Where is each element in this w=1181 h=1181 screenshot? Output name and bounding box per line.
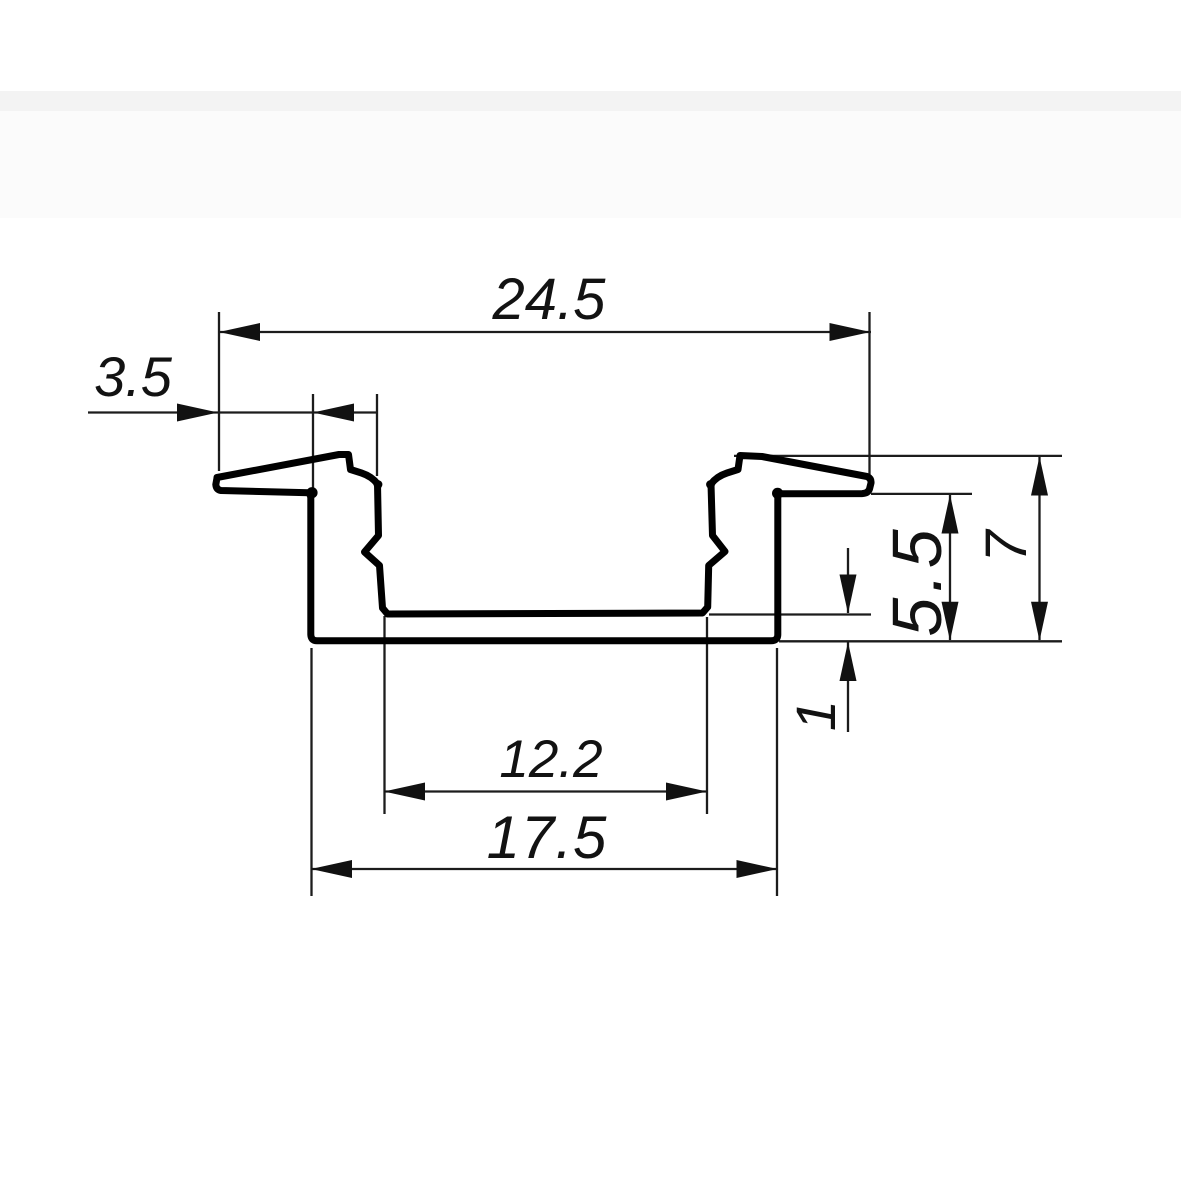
- arrow 1 bottom: [840, 642, 857, 681]
- ext line x313: [312, 394, 314, 488]
- arrow 17.5 left: [311, 860, 352, 878]
- dim line 3.5: [88, 411, 377, 413]
- arrow 1 top: [840, 575, 857, 614]
- ref line bottom: [779, 640, 1062, 642]
- svg-text:24.5: 24.5: [492, 267, 607, 332]
- dim line 17.5: [312, 868, 778, 870]
- hook dot left: [374, 480, 383, 489]
- ext line x377: [376, 394, 378, 476]
- hook dot right: [706, 480, 715, 489]
- arrow 3.5 right: [313, 404, 354, 422]
- svg-text:3.5: 3.5: [94, 345, 173, 408]
- ref line top for 5.5: [871, 493, 972, 495]
- profile outline: [216, 455, 871, 641]
- arrow 3.5 left: [177, 404, 218, 422]
- svg-text:1: 1: [784, 700, 847, 731]
- svg-text:5.5: 5.5: [878, 524, 956, 636]
- arrow 17.5 right: [737, 860, 778, 878]
- ext line 12.2 right: [706, 617, 708, 814]
- ext line 17.5 left: [310, 648, 312, 896]
- arrow 7 bottom: [1031, 602, 1048, 641]
- dim line 1 lower: [847, 643, 849, 733]
- svg-text:12.2: 12.2: [499, 730, 602, 789]
- svg-text:7: 7: [974, 528, 1039, 563]
- dim line 7: [1038, 457, 1040, 640]
- arrow 12.2 right: [666, 783, 707, 801]
- ref line for 1: [709, 613, 871, 615]
- corner dot left: [306, 487, 317, 498]
- arrow 24.5 left: [219, 323, 260, 341]
- dim line 12.2: [384, 790, 707, 792]
- arrow 5.5 top: [942, 495, 959, 534]
- ext line 12.2 left: [383, 616, 385, 814]
- corner dot right: [772, 488, 783, 499]
- ref line top for 7: [734, 455, 1062, 457]
- ext line 17.5 right: [776, 648, 778, 896]
- arrow 7 top: [1031, 457, 1048, 496]
- svg-text:17.5: 17.5: [487, 804, 608, 871]
- arrow 5.5 bottom: [942, 602, 959, 641]
- arrow 24.5 right: [830, 323, 871, 341]
- ext line 24.5 right: [868, 312, 870, 493]
- dim line 24.5: [219, 331, 871, 333]
- arrow 12.2 left: [384, 783, 425, 801]
- dim line 5.5: [949, 495, 951, 640]
- dim line 1 upper: [847, 548, 849, 613]
- ext line 24.5 left: [218, 312, 220, 471]
